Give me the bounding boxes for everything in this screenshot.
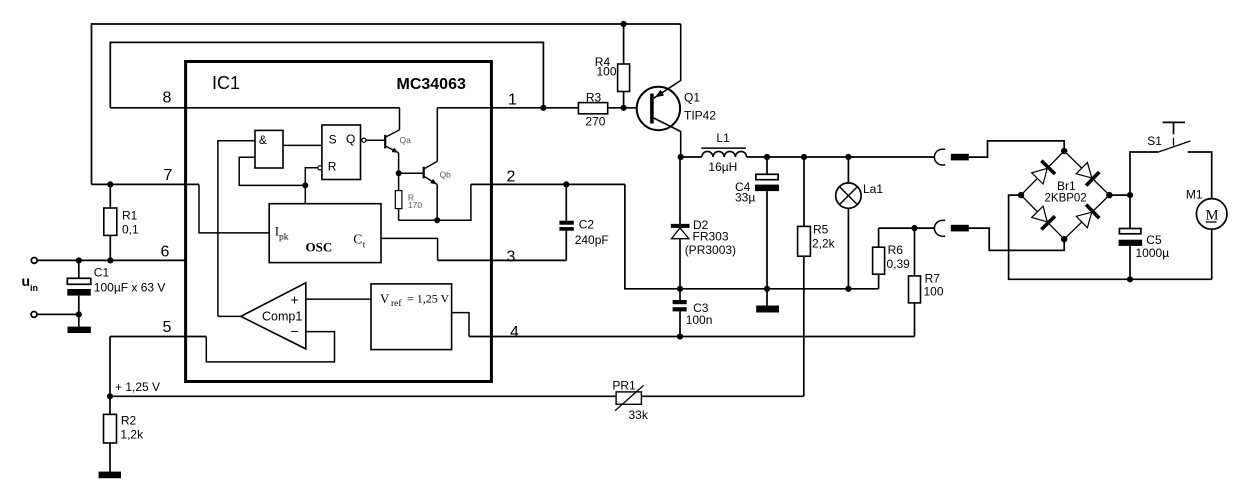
transistor Qb	[396, 108, 492, 221]
transistor Q1	[637, 24, 717, 157]
svg-text:TIP42: TIP42	[684, 109, 716, 123]
svg-text:FR303: FR303	[693, 229, 729, 243]
wire bridge DC plus	[1109, 192, 1133, 198]
svg-text:R3: R3	[586, 91, 602, 105]
inductor L1	[678, 131, 935, 174]
connector output minus	[934, 220, 1064, 250]
svg-text:V: V	[380, 291, 390, 306]
svg-text:33k: 33k	[629, 408, 649, 422]
pin 6	[37, 244, 186, 261]
svg-text:C2: C2	[579, 217, 595, 231]
svg-text:2KBP02: 2KBP02	[1045, 193, 1087, 205]
svg-text:R1: R1	[122, 209, 138, 223]
svg-text:ref: ref	[391, 298, 402, 309]
resistor R1	[104, 184, 139, 263]
svg-text:4: 4	[510, 324, 519, 341]
svg-text:R2: R2	[121, 414, 137, 428]
ground under C1	[68, 314, 91, 333]
lamp La1	[836, 154, 884, 292]
svg-text:Q: Q	[346, 132, 355, 146]
wire top supply rail	[92, 24, 681, 184]
svg-text:L1: L1	[716, 131, 730, 145]
svg-text:R7: R7	[925, 272, 941, 286]
wire AND output to S	[283, 144, 322, 146]
Vref box	[371, 284, 452, 350]
wire pin5 feedback node	[107, 337, 616, 400]
wire AND upper input from comparator	[218, 141, 255, 317]
wire Q output	[366, 139, 384, 141]
svg-text:R5: R5	[813, 223, 829, 237]
svg-text:8: 8	[163, 90, 172, 107]
pin 5	[110, 319, 206, 337]
svg-text:MC34063: MC34063	[397, 76, 466, 93]
svg-text:R: R	[328, 160, 337, 174]
wire Vref to pin 4	[452, 313, 469, 337]
capacitor C4	[735, 154, 779, 292]
bridge diode bottom-right	[1076, 205, 1099, 228]
svg-text:in: in	[30, 283, 38, 293]
svg-text:100: 100	[924, 285, 944, 299]
wire noninverting input to Vref	[306, 298, 371, 300]
svg-text:+: +	[291, 292, 299, 308]
ground on rail	[756, 289, 779, 313]
capacitor C2	[559, 181, 608, 260]
diode D2	[671, 157, 736, 289]
AND gate U-internal	[255, 130, 283, 168]
capacitor C3	[673, 286, 713, 340]
svg-text:pk: pk	[279, 233, 289, 243]
switch S1	[1130, 122, 1212, 198]
resistor R 170 internal	[395, 173, 422, 220]
svg-text:= 1,25 V: = 1,25 V	[407, 292, 450, 306]
pin 7	[92, 167, 200, 187]
capacitor C5	[1119, 195, 1170, 282]
wire comparator output	[218, 315, 241, 317]
wire Ct to pin 3	[381, 238, 438, 260]
svg-text:Qa: Qa	[400, 135, 412, 145]
resistor R5	[798, 154, 836, 256]
OSC box	[269, 204, 381, 263]
svg-text:C: C	[353, 232, 362, 247]
wire Qb emitter to pin 2	[399, 184, 471, 223]
svg-text:C5: C5	[1146, 233, 1162, 247]
wire sense junction	[879, 225, 935, 231]
flip-flop box	[318, 125, 366, 180]
svg-text:Br1: Br1	[1057, 179, 1076, 193]
motor M1	[1186, 188, 1227, 280]
svg-text:IC1: IC1	[212, 73, 240, 93]
resistor R6	[873, 228, 911, 289]
wire pin7 to Ipk	[199, 184, 269, 233]
wire R input	[302, 168, 318, 204]
pin 1	[491, 92, 578, 109]
svg-text:M1: M1	[1186, 188, 1203, 202]
svg-text:u: u	[22, 273, 31, 289]
svg-text:OSC: OSC	[306, 240, 333, 255]
svg-text:Q1: Q1	[684, 91, 700, 105]
svg-text:100n: 100n	[686, 313, 713, 327]
input terminal upper	[31, 258, 37, 264]
svg-text:7: 7	[164, 167, 173, 184]
bridge diode top-right	[1076, 162, 1099, 185]
svg-text:100µF x 63 V: 100µF x 63 V	[94, 281, 166, 295]
input terminal lower	[31, 311, 82, 317]
capacitor C1	[67, 257, 165, 314]
pin 3	[438, 249, 567, 266]
svg-text:0,39: 0,39	[887, 257, 911, 271]
svg-text:33µ: 33µ	[735, 191, 755, 205]
bridge diode bottom-left	[1032, 206, 1055, 229]
wire bridge DC minus	[1009, 195, 1212, 279]
svg-text:+ 1,25 V: + 1,25 V	[115, 380, 160, 394]
svg-text:−: −	[291, 323, 299, 339]
svg-text:La1: La1	[863, 182, 883, 196]
svg-text:5: 5	[163, 319, 172, 336]
bridge rectifier Br1	[1018, 148, 1113, 243]
svg-text:(PR3003): (PR3003)	[685, 243, 736, 257]
svg-text:170: 170	[408, 200, 422, 210]
wire pin2 to ground rail	[625, 184, 879, 288]
resistor R4	[595, 21, 630, 108]
svg-text:2,2k: 2,2k	[812, 237, 836, 251]
svg-text:C1: C1	[94, 266, 110, 280]
IC1 box	[186, 62, 492, 382]
svg-text:R6: R6	[888, 243, 904, 257]
svg-text:1,2k: 1,2k	[120, 428, 144, 442]
svg-text:0,1: 0,1	[122, 223, 139, 237]
svg-text:100: 100	[597, 65, 617, 79]
svg-text:270: 270	[585, 115, 605, 129]
pin 4	[469, 324, 915, 341]
svg-text:S: S	[329, 133, 337, 147]
svg-text:6: 6	[161, 244, 170, 261]
svg-text:1: 1	[508, 92, 517, 109]
svg-text:16µH: 16µH	[708, 160, 737, 174]
svg-text:M: M	[1206, 208, 1219, 224]
resistor R3	[540, 91, 650, 129]
trimmer PR1	[612, 256, 803, 422]
ground under R2	[99, 472, 121, 479]
resistor R7	[909, 228, 944, 336]
transistor Qa	[385, 108, 411, 173]
wire pin8 to pin1 loop rail	[110, 42, 543, 107]
svg-text:&: &	[259, 133, 267, 147]
wire AND lower input	[239, 157, 305, 185]
svg-text:240pF: 240pF	[575, 233, 609, 247]
svg-text:t: t	[363, 241, 366, 251]
resistor R2	[104, 396, 145, 471]
svg-text:PR1: PR1	[612, 379, 636, 393]
pin 8	[110, 90, 399, 108]
pin 2	[471, 169, 625, 186]
connector output plus	[934, 141, 1064, 165]
svg-text:Qb: Qb	[440, 170, 452, 180]
svg-text:3: 3	[507, 249, 516, 266]
op-amp Comp1	[241, 283, 306, 349]
svg-text:1000µ: 1000µ	[1136, 246, 1170, 260]
svg-text:S1: S1	[1147, 134, 1162, 148]
wire pin5 to inverting input	[206, 332, 334, 362]
label u in	[22, 273, 39, 293]
svg-text:Comp1: Comp1	[262, 310, 302, 324]
bridge diode top-left	[1032, 161, 1055, 184]
svg-text:2: 2	[507, 169, 516, 186]
